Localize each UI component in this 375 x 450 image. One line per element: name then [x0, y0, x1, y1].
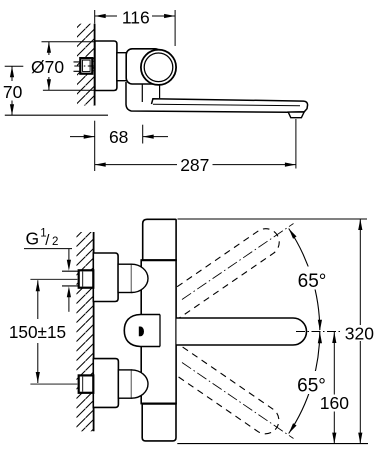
dim 320 [359, 219, 361, 325]
svg-text:Ø70: Ø70 [31, 57, 64, 77]
dim 287 extension line right [295, 119, 297, 169]
spout assembly fill (side view) [126, 80, 308, 118]
wall hatch (front view) [77, 232, 94, 431]
svg-text:70: 70 [3, 82, 23, 102]
svg-text:G: G [26, 229, 40, 249]
dim 116 [95, 15, 117, 17]
dim 320 extension lines [178, 218, 368, 220]
svg-text:287: 287 [180, 155, 209, 175]
inlet pipe stub (side view) [74, 62, 81, 71]
svg-text:320: 320 [345, 323, 374, 343]
lower inlet escutcheon [93, 359, 118, 408]
label 65 upper [296, 267, 329, 290]
dim 160 [333, 332, 335, 395]
body main column [141, 260, 176, 404]
knob circle (side view) [141, 50, 176, 85]
spout outline (side view) [126, 82, 308, 112]
label 65 lower [295, 371, 328, 394]
G 1/2 arrow upper [68, 249, 70, 260]
wall hatch (side view) [77, 24, 95, 106]
upper inlet nut [79, 270, 94, 287]
lower inlet center line [30, 383, 98, 385]
rotated spout center line down [182, 363, 294, 439]
downpipe middle edge (side view) [141, 82, 143, 102]
dim 68 extension lines [94, 121, 96, 171]
dim 70 [11, 66, 13, 81]
solid spout (front view) [177, 318, 307, 345]
escutcheon (side view) [95, 41, 117, 91]
upper inlet escutcheon [93, 253, 118, 302]
65 deg arc lower [289, 332, 320, 434]
svg-text:150±15: 150±15 [9, 322, 66, 342]
dim 116 extension lines [94, 10, 96, 24]
lower inlet nut [79, 375, 94, 392]
svg-text:116: 116 [122, 7, 150, 27]
upper inlet dome [132, 264, 149, 292]
wall face line (front view) [93, 232, 95, 431]
dim 70 tick [5, 65, 24, 67]
dashed spout rotated down [147, 333, 284, 439]
aerator (side view) [288, 112, 304, 118]
65 deg arc upper [289, 229, 320, 331]
dim 150+-15 [37, 280, 39, 319]
neck (side view) [117, 53, 132, 81]
svg-text:160: 160 [320, 393, 349, 413]
body top cap [143, 219, 176, 260]
control knob (front view) [124, 315, 160, 347]
dashed spout rotated up [147, 223, 284, 329]
knob housing (side view) [126, 49, 161, 84]
dim 70 bottom extension line [5, 114, 108, 116]
lower inlet connector [118, 370, 131, 398]
body bottom cap [142, 404, 176, 441]
svg-text:2: 2 [52, 236, 58, 248]
svg-text:68: 68 [109, 127, 128, 147]
inlet square nut (side view) [80, 58, 92, 74]
wall face line (side view) [94, 24, 96, 106]
dim 68 [70, 136, 95, 138]
spout top face line (side view) [153, 104, 300, 106]
G 1/2 leader underline [24, 248, 72, 250]
lower inlet dome [132, 370, 149, 398]
dim O70 [48, 42, 50, 55]
upper inlet connector [118, 264, 131, 292]
dim 287 [95, 164, 177, 166]
inlet center line (side view) [74, 65, 98, 67]
dim O70 extension lines [42, 41, 96, 43]
downpipe right edge (side view) [159, 84, 161, 98]
svg-text:/: / [45, 232, 50, 249]
G 1/2 arrow lower [68, 297, 70, 312]
rotated spout center line up [182, 224, 294, 300]
spout center line (front view) [296, 331, 341, 333]
knob display dot [139, 327, 144, 337]
upper inlet pipe stub [62, 271, 79, 286]
svg-text:65°: 65° [298, 271, 327, 292]
upper inlet center line [30, 278, 98, 280]
